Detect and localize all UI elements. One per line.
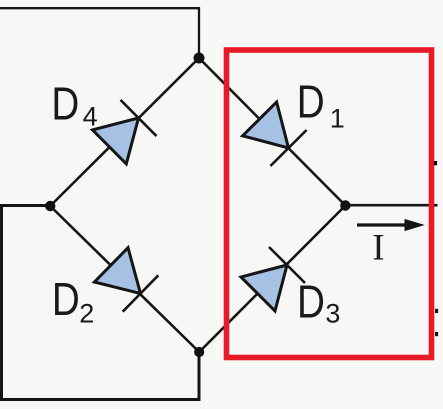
node right	[340, 200, 350, 210]
stub right edge upper	[434, 161, 437, 165]
svg-text:2: 2	[79, 298, 94, 328]
wire diagonal top-right (top node to right node)	[199, 58, 345, 206]
svg-text:D: D	[52, 274, 80, 325]
wire diagonal bottom-left (left node to bottom node)	[50, 206, 199, 352]
svg-text:I: I	[372, 227, 384, 268]
current arrow	[357, 219, 425, 231]
wire output (right node to right edge)	[345, 204, 437, 207]
svg-text:D: D	[51, 78, 79, 129]
label D3	[297, 276, 340, 329]
stub right edge mid	[435, 309, 438, 313]
svg-text:4: 4	[83, 101, 98, 131]
node left	[45, 201, 55, 211]
svg-text:3: 3	[325, 299, 340, 329]
svg-text:D: D	[297, 276, 325, 327]
wire top horizontal	[0, 8, 199, 58]
svg-text:D: D	[297, 77, 325, 128]
diode D3	[241, 247, 305, 311]
label D1	[297, 77, 345, 134]
diode D4	[93, 100, 157, 164]
diode D1	[243, 102, 307, 166]
red highlight box	[227, 50, 432, 358]
node bottom	[194, 347, 204, 357]
stub right edge lower	[435, 332, 438, 336]
diode D2	[94, 248, 158, 312]
wire diagonal bottom-right (right node to bottom node)	[199, 206, 345, 353]
wire diagonal top-left (top node to left node)	[50, 58, 199, 206]
label D2	[52, 274, 94, 329]
svg-text:1: 1	[330, 103, 345, 133]
node top	[194, 53, 205, 64]
label D4	[51, 78, 97, 131]
wire left loop (left node to left edge, down, along bottom, up to bottom node)	[2, 206, 200, 400]
